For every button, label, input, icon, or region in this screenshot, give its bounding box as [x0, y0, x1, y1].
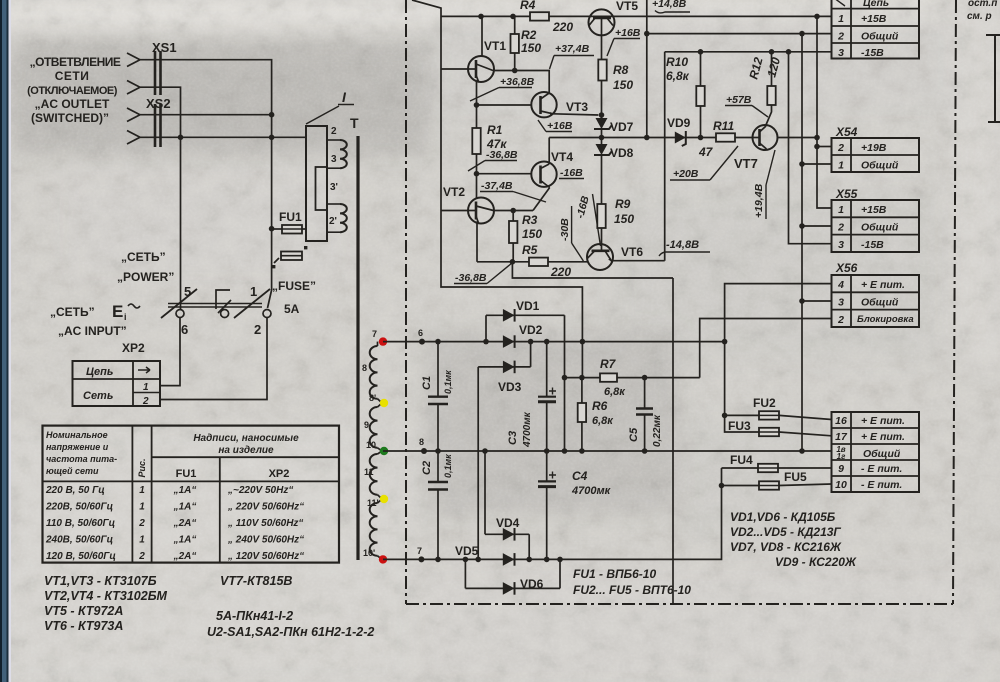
- label AC outlet text block: [27, 55, 121, 125]
- svg-text:FU4: FU4: [730, 453, 753, 467]
- svg-text:FU1 - ВПБ6-10: FU1 - ВПБ6-10: [573, 567, 656, 581]
- svg-text:Цепь: Цепь: [863, 0, 889, 9]
- svg-text:С3: С3: [507, 431, 519, 445]
- svg-text:VD7: VD7: [610, 120, 634, 134]
- svg-text:R9: R9: [615, 197, 631, 211]
- svg-text:„ 220V 50/60Hz“: „ 220V 50/60Hz“: [227, 502, 304, 513]
- svg-text:Номинальное: Номинальное: [46, 430, 108, 440]
- wire VT4 base: [477, 173, 532, 175]
- svg-text:„ 110V 50/60Hz“: „ 110V 50/60Hz“: [227, 518, 303, 529]
- svg-text:X54: X54: [835, 125, 858, 139]
- svg-text:FU3: FU3: [728, 419, 751, 433]
- node VD9 wire junction: [644, 135, 650, 141]
- svg-text:+57В: +57В: [726, 94, 752, 106]
- svg-text:VD2...VD5 - КД213Г: VD2...VD5 - КД213Г: [730, 525, 841, 539]
- label +37,4V: [550, 43, 595, 69]
- wire X56 pin3 stub: [802, 300, 832, 302]
- capacitor C3: [507, 339, 556, 454]
- svg-text:16: 16: [835, 415, 847, 427]
- wire -15V bus: [789, 52, 832, 244]
- svg-text:VD8: VD8: [610, 146, 634, 160]
- node -15V bus top: [786, 49, 792, 55]
- transistor VT3: [531, 92, 598, 117]
- svg-text:R3: R3: [522, 213, 538, 227]
- svg-text:„1А“: „1А“: [173, 502, 197, 513]
- svg-text:С4: С4: [572, 469, 588, 483]
- svg-text:-37,4В: -37,4В: [481, 180, 513, 192]
- switch indicator I with arrow: [306, 89, 354, 124]
- node pin7 red marker: [379, 337, 387, 345]
- node VD1 leg / mid rail: [562, 448, 568, 454]
- wire VT3 base: [477, 104, 532, 106]
- svg-text:FU2: FU2: [753, 396, 776, 410]
- svg-text:-15В: -15В: [861, 239, 884, 251]
- svg-text:„2А“: „2А“: [173, 518, 197, 529]
- zener VD9: [667, 116, 691, 146]
- svg-text:„СЕТЬ”: „СЕТЬ”: [50, 305, 95, 319]
- node trunk/XS2 junction: [269, 112, 275, 118]
- svg-text:2: 2: [837, 222, 844, 234]
- wire switch pole A feed: [180, 137, 182, 309]
- svg-text:5A: 5A: [284, 302, 300, 316]
- svg-text:FU1: FU1: [176, 468, 197, 480]
- node VT4 base tap: [474, 171, 480, 177]
- wire junction down to chassis trunk: [512, 262, 673, 278]
- svg-text:частота пита-: частота пита-: [46, 454, 117, 464]
- svg-text:E: E: [112, 302, 123, 321]
- capacitor C1: [421, 339, 453, 454]
- connector XS2: [127, 96, 171, 147]
- label +16V VT5: [607, 27, 641, 56]
- svg-text:150: 150: [522, 227, 542, 241]
- svg-text:0,1мк: 0,1мк: [443, 454, 453, 478]
- node X54 pin1: [799, 161, 805, 167]
- wire VT2 collector to R3: [494, 210, 533, 212]
- svg-text:XP2: XP2: [122, 341, 145, 355]
- fuse FU2: [725, 396, 832, 420]
- note see-reference right edge: [967, 0, 997, 22]
- fuse spare holder: [272, 246, 307, 268]
- node terminal 6: [418, 328, 425, 345]
- wire trunk down to FU1 and switch contact 2: [268, 115, 272, 308]
- label +16V VT3: [538, 120, 573, 132]
- svg-text:R2: R2: [521, 28, 537, 42]
- transformer T voltage selector block: [306, 126, 327, 241]
- svg-text:„2А“: „2А“: [173, 551, 197, 562]
- label +36,8V: [470, 76, 535, 101]
- svg-text:Общий: Общий: [861, 297, 899, 309]
- resistor R8: [598, 35, 633, 115]
- svg-text:3': 3': [330, 182, 338, 193]
- svg-text:X56: X56: [835, 261, 858, 275]
- svg-text:1: 1: [838, 160, 844, 172]
- svg-text:8': 8': [369, 393, 376, 403]
- resistor R10: [666, 49, 705, 140]
- svg-text:VD9 - КС220Ж: VD9 - КС220Ж: [775, 555, 857, 569]
- svg-text:1г: 1г: [837, 452, 846, 461]
- svg-text:VD4: VD4: [496, 516, 520, 530]
- node X54 stub: [814, 144, 820, 150]
- resistor R7: [600, 357, 626, 398]
- svg-text:0,22мк: 0,22мк: [652, 414, 663, 447]
- wire R7 filter rail: [565, 377, 700, 379]
- label -36,8V: [468, 149, 518, 171]
- node R2 bottom: [512, 68, 518, 74]
- wire VD1 right leg down to mid rail: [564, 315, 566, 451]
- svg-text:2: 2: [138, 551, 145, 562]
- svg-text:„~220V 50Hz“: „~220V 50Hz“: [227, 485, 293, 496]
- node wire4 junction A: [178, 135, 184, 141]
- wire -E lower trunk: [722, 467, 759, 469]
- svg-text:2: 2: [837, 31, 844, 43]
- svg-text:R1: R1: [487, 123, 503, 137]
- svg-text:9: 9: [838, 463, 844, 475]
- svg-text:10: 10: [835, 479, 847, 491]
- svg-text:R6: R6: [592, 399, 608, 413]
- svg-text:VT7: VT7: [734, 156, 758, 171]
- wire chassis stub trunk: [672, 278, 674, 604]
- wire switch 6 to XP2 pin1: [160, 318, 180, 386]
- svg-text:VT1: VT1: [484, 39, 506, 53]
- svg-text:1: 1: [139, 535, 145, 546]
- svg-text:R4: R4: [520, 0, 536, 12]
- capacitor C2: [421, 451, 453, 562]
- svg-text:VT6: VT6: [621, 245, 643, 259]
- svg-text:Надписи, наносимые: Надписи, наносимые: [193, 433, 299, 444]
- diode VD2: [503, 323, 543, 348]
- label -37,4V: [480, 180, 546, 202]
- svg-text:R8: R8: [613, 63, 629, 77]
- transformer secondary winding group 1: [362, 329, 382, 403]
- node wire4 trunk junction: [269, 135, 275, 141]
- node terminal 8: [419, 437, 427, 454]
- node VT1 collector junction: [478, 14, 484, 20]
- label +57V: [725, 94, 768, 117]
- svg-text:„ 240V 50/60Hz“: „ 240V 50/60Hz“: [227, 535, 304, 546]
- svg-text:R7: R7: [600, 357, 617, 371]
- label -14,8V: [659, 239, 710, 256]
- resistor R6: [578, 375, 615, 454]
- svg-text:„СЕТЬ”: „СЕТЬ”: [121, 250, 166, 264]
- resistor R11: [698, 119, 735, 159]
- svg-text:ющей сети: ющей сети: [46, 466, 99, 476]
- wire XS1 pin1 to trunk: [140, 60, 272, 115]
- svg-text:3: 3: [838, 297, 844, 309]
- svg-text:FU1: FU1: [279, 210, 302, 224]
- svg-text:Рис.: Рис.: [137, 458, 147, 477]
- svg-text:220 В, 50 Гц: 220 В, 50 Гц: [45, 485, 105, 496]
- svg-text:на изделие: на изделие: [218, 445, 274, 456]
- fuse FU3: [728, 419, 832, 436]
- svg-text:220: 220: [550, 265, 571, 279]
- svg-text:VT2,VT4 - КТ3102БМ: VT2,VT4 - КТ3102БМ: [44, 589, 168, 603]
- svg-text:VD5: VD5: [455, 544, 479, 558]
- svg-text:Цепь: Цепь: [86, 366, 113, 378]
- svg-text:220В, 50/60Гц: 220В, 50/60Гц: [45, 502, 113, 513]
- svg-text:10': 10': [363, 548, 375, 558]
- svg-text:-15В: -15В: [861, 47, 884, 59]
- svg-text:„ОТВЕТВЛЕНИЕ: „ОТВЕТВЛЕНИЕ: [30, 55, 121, 69]
- svg-text:U2-SA1,SA2-ПКн 61Н2-1-2-2: U2-SA1,SA2-ПКн 61Н2-1-2-2: [207, 625, 374, 639]
- diode VD1: [483, 299, 564, 344]
- node tap green marker: [380, 447, 388, 455]
- zener VD7: [594, 115, 634, 144]
- svg-text:2: 2: [142, 396, 149, 407]
- svg-text:+ Е пит.: + Е пит.: [861, 279, 905, 291]
- svg-text:110 В, 50/60Гц: 110 В, 50/60Гц: [46, 518, 115, 529]
- svg-text:9: 9: [364, 420, 369, 430]
- resistor R12: [746, 49, 783, 126]
- connector X54: [832, 125, 920, 172]
- svg-text:120 В, 50/60Гц: 120 В, 50/60Гц: [46, 551, 116, 562]
- svg-text:- Е пит.: - Е пит.: [861, 479, 902, 491]
- svg-text:-16В: -16В: [560, 167, 583, 179]
- svg-text:i: i: [124, 312, 127, 322]
- svg-text:„AC INPUT”: „AC INPUT”: [58, 324, 127, 338]
- svg-text:„AC OUTLET: „AC OUTLET: [35, 97, 110, 111]
- svg-text:VT4: VT4: [551, 150, 573, 164]
- note transistor types list: [44, 574, 292, 633]
- svg-text:1: 1: [838, 204, 844, 216]
- svg-text:FU5: FU5: [784, 470, 807, 484]
- transformer secondary winding group 2: [364, 393, 382, 451]
- svg-text:-36,8В: -36,8В: [486, 149, 518, 161]
- connector X55: [832, 187, 920, 252]
- svg-text:3: 3: [331, 154, 337, 165]
- wire XS1 pin2 down: [140, 87, 181, 137]
- svg-text:VD7, VD8 - КС216Ж: VD7, VD8 - КС216Ж: [730, 540, 842, 554]
- svg-text:Блокировка: Блокировка: [857, 314, 914, 325]
- capacitor C4: [538, 451, 612, 562]
- svg-text:4700мк: 4700мк: [522, 411, 533, 448]
- svg-text:1: 1: [838, 13, 844, 25]
- label +19,4V rotated: [753, 150, 775, 219]
- svg-text:R11: R11: [713, 119, 734, 133]
- wire switch 2 to XP2 pin2: [160, 318, 267, 400]
- label -36,8V bottom: [454, 263, 512, 284]
- resistor R5: [512, 243, 588, 279]
- svg-text:8: 8: [362, 363, 367, 373]
- resistor R1: [472, 81, 507, 199]
- svg-text:VT7-КТ815В: VT7-КТ815В: [220, 574, 292, 588]
- svg-text:1: 1: [143, 382, 149, 393]
- svg-text:VD3: VD3: [498, 380, 522, 394]
- svg-text:7: 7: [417, 546, 422, 556]
- transistor VT4: [531, 138, 573, 211]
- svg-text:1: 1: [139, 485, 145, 496]
- node X56 pin3: [799, 298, 805, 304]
- svg-text:VD9: VD9: [667, 116, 691, 130]
- svg-text:4: 4: [837, 279, 844, 291]
- wire top entering line to VD9 node: [646, 0, 648, 138]
- svg-text:-14,8В: -14,8В: [666, 239, 699, 251]
- node rail / R7 wire: [581, 377, 583, 379]
- svg-text:6: 6: [418, 328, 423, 338]
- node +E trunk / FU2: [722, 413, 728, 419]
- node FU1 junction: [269, 226, 275, 232]
- resistor R9: [597, 197, 634, 244]
- svg-text:см. р: см. р: [967, 11, 992, 22]
- svg-text:11: 11: [364, 467, 374, 477]
- svg-text:„1А“: „1А“: [173, 535, 197, 546]
- wire VT6 emitter riser: [664, 52, 666, 261]
- svg-text:+19,4В: +19,4В: [753, 183, 765, 218]
- svg-text:XS2: XS2: [146, 96, 171, 111]
- node VT7 emitter bus: [814, 135, 820, 141]
- label FUSE 5A: [272, 279, 316, 316]
- svg-text:T: T: [350, 115, 359, 131]
- svg-text:+36,8В: +36,8В: [500, 76, 535, 88]
- svg-text:0,1мк: 0,1мк: [443, 370, 453, 394]
- fuse FU5: [719, 470, 832, 490]
- svg-text:Общий: Общий: [863, 448, 901, 460]
- wire common feed: [647, 33, 832, 35]
- svg-text:3: 3: [838, 47, 844, 59]
- transformer secondary winding group 4: [363, 498, 382, 559]
- capacitor C5: [628, 375, 663, 454]
- connector XP2 table: [73, 361, 161, 407]
- transistor VT7: [734, 125, 817, 171]
- svg-text:(ОТКЛЮЧАЕМОЕ): (ОТКЛЮЧАЕМОЕ): [27, 85, 118, 97]
- wire X54 pin1 stub: [802, 163, 832, 165]
- svg-text:Общий: Общий: [861, 31, 899, 43]
- svg-text:-30В: -30В: [559, 218, 571, 241]
- diode VD5: [455, 544, 515, 566]
- node R8 VD7 VT3 junction: [599, 112, 605, 118]
- svg-text:VT3: VT3: [566, 100, 588, 114]
- node tap yellow marker lower: [380, 495, 388, 503]
- wire rectifier bottom rail: [383, 468, 722, 559]
- svg-text:6,8к: 6,8к: [604, 386, 626, 398]
- wire partial component right edge: [986, 35, 1000, 122]
- svg-text:+16В: +16В: [547, 120, 573, 132]
- node VD1 leg / R7 wire: [562, 375, 568, 381]
- svg-text:6: 6: [181, 322, 188, 337]
- svg-text:VT5: VT5: [616, 0, 638, 13]
- svg-text:+37,4В: +37,4В: [555, 43, 590, 55]
- transistor VT6: [587, 244, 665, 270]
- svg-text:„1А“: „1А“: [173, 485, 197, 496]
- node pin10' red marker: [379, 555, 387, 563]
- transistor VT5: [589, 0, 639, 35]
- node R4 / R2 junction: [510, 14, 516, 20]
- wire X54 pin2 stub: [817, 146, 832, 148]
- svg-text:3: 3: [838, 239, 844, 251]
- resistor R2: [511, 16, 542, 70]
- svg-text:7: 7: [372, 329, 377, 339]
- node common bus top: [799, 31, 805, 37]
- svg-text:„ 120V 50/60Hz“: „ 120V 50/60Hz“: [227, 551, 304, 562]
- resistor R4: [520, 0, 573, 34]
- svg-text:47: 47: [698, 145, 714, 159]
- connector table top (cut): [832, 0, 920, 59]
- svg-text:С5: С5: [628, 427, 640, 442]
- svg-text:(SWITCHED)”: (SWITCHED)”: [31, 111, 109, 125]
- node zener mid / drive wire: [599, 135, 605, 141]
- svg-text:„FUSE”: „FUSE”: [272, 279, 316, 293]
- svg-text:+20В: +20В: [673, 168, 699, 180]
- svg-text:240В, 50/60Гц: 240В, 50/60Гц: [45, 535, 113, 546]
- svg-text:2: 2: [138, 518, 145, 529]
- wire -15V feed: [665, 51, 832, 53]
- wire +15V top feed: [441, 15, 832, 17]
- svg-text:R10: R10: [666, 55, 688, 69]
- svg-text:FU2... FU5 - ВПТ6-10: FU2... FU5 - ВПТ6-10: [573, 583, 691, 597]
- transistor VT2: [441, 185, 512, 262]
- svg-text:4700мк: 4700мк: [571, 485, 612, 497]
- svg-text:2: 2: [837, 314, 844, 326]
- wire rectifier mid rail: [383, 450, 832, 452]
- svg-text:С2: С2: [421, 461, 433, 475]
- transformer core: [356, 136, 359, 560]
- svg-text:6,8к: 6,8к: [592, 415, 614, 427]
- svg-text:10: 10: [366, 440, 376, 450]
- wire +15V bus: [817, 16, 832, 208]
- svg-text:XP2: XP2: [269, 468, 290, 480]
- svg-text:+ Е пит.: + Е пит.: [861, 431, 905, 443]
- svg-text:напряжение и: напряжение и: [46, 442, 109, 452]
- wire XS2 pin2 to transformer pin 2: [140, 136, 306, 138]
- note switch types: [207, 609, 374, 639]
- wire X55 pin2 stub: [802, 225, 832, 227]
- transformer primary winding 3: [327, 140, 347, 168]
- transistor VT1: [441, 16, 506, 82]
- svg-text:Сеть: Сеть: [83, 390, 113, 402]
- svg-text:150: 150: [521, 41, 541, 55]
- voltage/marking table: [43, 426, 340, 563]
- enclosure border dash-dot: [406, 0, 956, 604]
- label +20V: [670, 146, 738, 180]
- svg-text:1: 1: [139, 502, 145, 513]
- wire XS2 pin1: [140, 114, 272, 116]
- label SET POWER: [117, 250, 174, 284]
- svg-text:R5: R5: [522, 243, 538, 257]
- svg-text:2: 2: [254, 322, 261, 337]
- power switch SA: [161, 284, 271, 337]
- svg-text:+15В: +15В: [861, 13, 887, 25]
- node tap yellow marker upper: [380, 399, 388, 407]
- svg-text:150: 150: [613, 78, 633, 92]
- label -16V VT4: [559, 167, 584, 179]
- svg-text:6,8к: 6,8к: [666, 69, 690, 83]
- label -30V rotated: [559, 206, 583, 261]
- diode VD6: [463, 557, 563, 595]
- svg-text:+16В: +16В: [615, 27, 641, 39]
- node terminal 7: [417, 546, 424, 562]
- label +14,8V cut top: [652, 0, 690, 13]
- svg-text:+ Е пит.: + Е пит.: [861, 415, 905, 427]
- node top line / ground wire: [644, 31, 650, 37]
- node X55 pin2: [799, 223, 805, 229]
- svg-text:VT5 - КТ972А: VT5 - КТ972А: [44, 604, 123, 618]
- note diode types list: [730, 510, 857, 569]
- svg-text:2: 2: [837, 142, 844, 154]
- svg-text:VD2: VD2: [519, 323, 543, 337]
- svg-text:VT6 - КТ973А: VT6 - КТ973А: [44, 619, 123, 633]
- node VT3 base tap: [474, 102, 480, 108]
- svg-text:СЕТИ: СЕТИ: [55, 69, 90, 83]
- wire VT1 collector to VT3 collector riser: [495, 71, 550, 94]
- node common bus / mid rail: [799, 448, 805, 454]
- node rail / top rectifier rail: [580, 339, 586, 345]
- svg-text:VD1: VD1: [516, 299, 540, 313]
- label SET AC INPUT: [50, 302, 145, 355]
- label -16V rotated: [574, 194, 600, 246]
- svg-text:С1: С1: [421, 376, 433, 390]
- wire left rail of amplifier: [412, 0, 582, 378]
- node R3 R5 VT2 junction: [510, 259, 516, 265]
- svg-text:- Е пит.: - Е пит.: [861, 463, 902, 475]
